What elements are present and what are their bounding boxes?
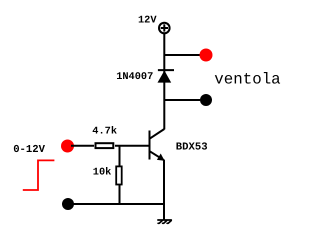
- wire branch to ventola +: [164, 54, 200, 56]
- wire junction to R2: [119, 146, 121, 166]
- svg-text:0-12V: 0-12V: [13, 144, 45, 156]
- supply terminal +12V: [159, 23, 170, 34]
- svg-text:10k: 10k: [93, 167, 112, 179]
- svg-text:1N4007: 1N4007: [116, 71, 153, 83]
- node ventola + terminal (red): [200, 49, 213, 62]
- resistor R2 10k: [116, 166, 122, 184]
- wire R2 to ground rail: [119, 185, 121, 204]
- wire input to R1: [71, 145, 94, 147]
- resistor R1 4.7k: [96, 143, 114, 148]
- signal step waveform: [23, 160, 55, 190]
- node ground terminal (black): [62, 198, 74, 210]
- transistor Q1 BDX53: [150, 129, 165, 160]
- svg-text:12V: 12V: [138, 14, 157, 26]
- svg-text:4.7k: 4.7k: [92, 125, 117, 137]
- ground: [158, 220, 171, 223]
- wire main vertical rail: [163, 34, 165, 130]
- node input terminal (red): [61, 140, 74, 153]
- svg-text:ventola: ventola: [214, 71, 280, 89]
- node ventola - terminal (black): [200, 94, 212, 106]
- wire emitter to ground: [163, 160, 165, 220]
- wire R1 to base: [115, 145, 150, 147]
- svg-text:BDX53: BDX53: [176, 141, 208, 153]
- wire branch to ventola -: [164, 99, 200, 101]
- diode D1 1N4007: [158, 70, 175, 83]
- wire bottom ground rail: [68, 203, 164, 205]
